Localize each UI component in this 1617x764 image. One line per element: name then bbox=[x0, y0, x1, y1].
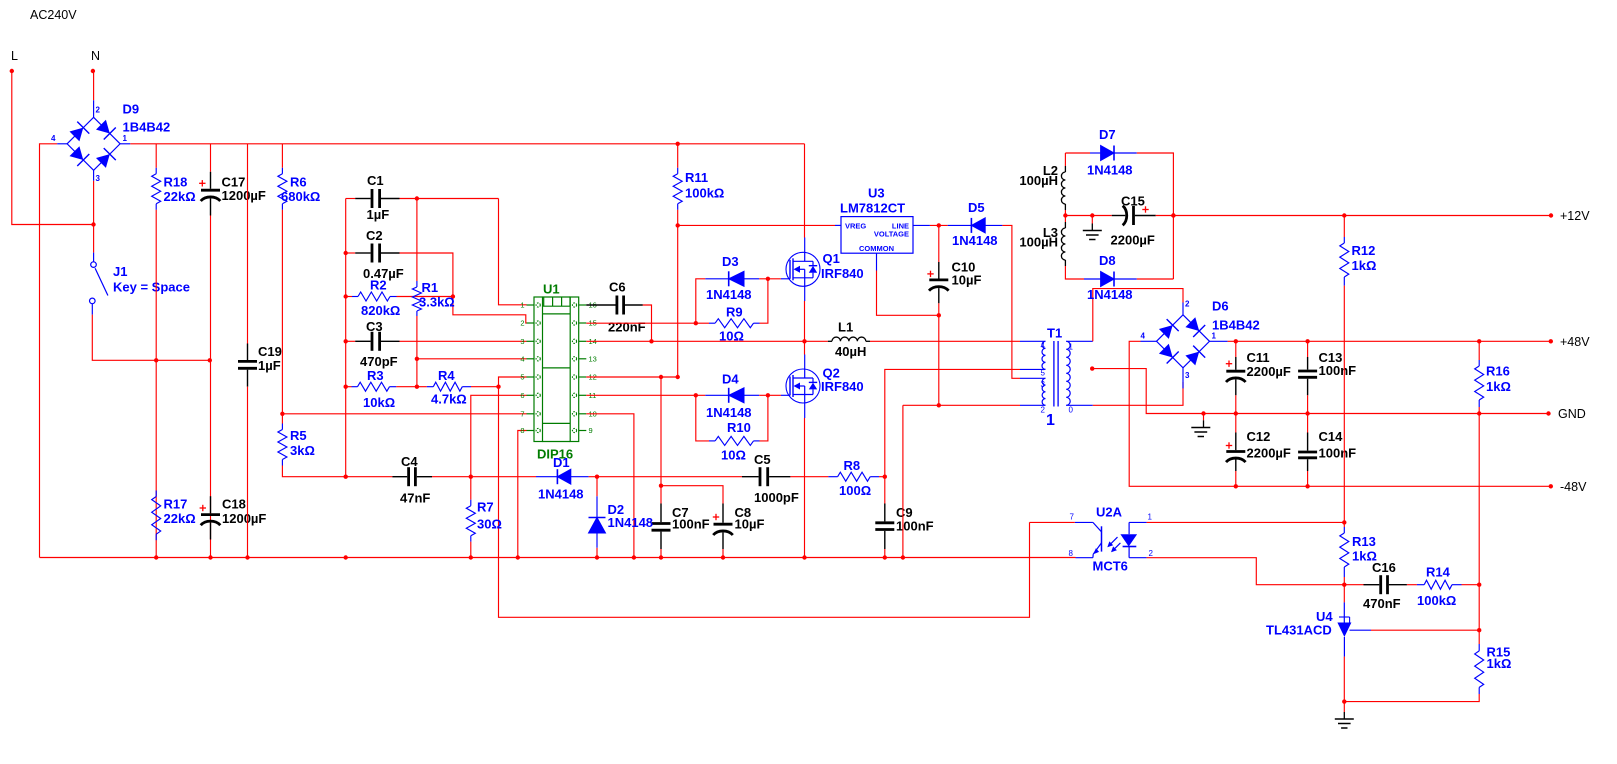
wire pin14 row to L1 bbox=[586, 340, 828, 342]
junction R1 column at R3/R4 row bbox=[415, 385, 419, 389]
svg-text:4.7kΩ: 4.7kΩ bbox=[431, 392, 467, 407]
svg-text:47nF: 47nF bbox=[400, 491, 430, 506]
resistor R18 bbox=[152, 168, 161, 210]
svg-text:1: 1 bbox=[1046, 412, 1055, 429]
junction R18 bottom at mid row bbox=[154, 358, 158, 362]
wire C8 bottom to rail bbox=[722, 549, 724, 558]
wire pin11 row bbox=[586, 394, 705, 396]
wire top rail from bridge pin1 to Q1 drain column bbox=[130, 143, 804, 145]
svg-text:10µF: 10µF bbox=[735, 517, 765, 532]
wire rail to R11 bbox=[677, 144, 679, 168]
wire pin15 row bbox=[586, 322, 696, 324]
junction R4 right node bbox=[496, 385, 500, 389]
svg-text:1kΩ: 1kΩ bbox=[1487, 656, 1512, 671]
wire C14 bottom to -48V row bbox=[1307, 471, 1309, 486]
resistor R2 bbox=[352, 292, 397, 301]
svg-text:D9: D9 bbox=[123, 102, 140, 117]
transistor Q2 bbox=[786, 369, 820, 404]
svg-text:2200µF: 2200µF bbox=[1111, 233, 1155, 248]
junction GND at R16 bbox=[1477, 411, 1481, 415]
resistor R3 bbox=[352, 382, 397, 391]
junction +48V at C13 bbox=[1305, 339, 1309, 343]
junction bottom rail at D2 column bbox=[595, 555, 599, 559]
wire GND row bbox=[1204, 413, 1549, 415]
svg-text:470nF: 470nF bbox=[1363, 596, 1401, 611]
wire pin1 column down bbox=[499, 199, 527, 305]
svg-text:680kΩ: 680kΩ bbox=[281, 189, 320, 204]
wire T1 pin2 row bbox=[903, 404, 1020, 406]
wire U2A pin8 row (bottom rail extension) bbox=[1075, 557, 1077, 559]
svg-text:R4: R4 bbox=[438, 368, 455, 383]
svg-text:TL431ACD: TL431ACD bbox=[1266, 623, 1332, 638]
wire C19 bottom to rail bbox=[247, 387, 249, 558]
svg-text:C11: C11 bbox=[1247, 350, 1270, 365]
junction L-line to bridge3 wire bbox=[91, 222, 95, 226]
svg-text:1N4148: 1N4148 bbox=[1087, 287, 1133, 302]
junction bottom rail at T1 pin2 column bbox=[901, 555, 905, 559]
svg-text:R7: R7 bbox=[477, 500, 494, 515]
junction left column at R3 row bbox=[344, 385, 348, 389]
wire D5 right to T1 pin3 column bbox=[1002, 225, 1020, 378]
L3 bottom lead bbox=[1064, 260, 1066, 266]
wire C9 column bbox=[884, 477, 886, 504]
diode D8 bbox=[1084, 272, 1137, 287]
wire C12 top red bbox=[1235, 414, 1237, 433]
L2 top lead bbox=[1064, 166, 1066, 172]
svg-text:100Ω: 100Ω bbox=[839, 483, 871, 498]
junction +48V at R16 bbox=[1477, 339, 1481, 343]
svg-text:10µF: 10µF bbox=[952, 273, 982, 288]
bridge rectifier D9 bbox=[51, 106, 127, 183]
svg-text:R13: R13 bbox=[1352, 534, 1376, 549]
wire R6 bottom to R5 top bbox=[281, 210, 283, 424]
wire R16 column down to C16 row bbox=[1478, 414, 1480, 585]
wire D3 left column bbox=[696, 279, 706, 323]
resistor R15 bbox=[1475, 644, 1484, 694]
wire R4 left red bbox=[417, 386, 427, 388]
terminal +48V bbox=[1549, 339, 1553, 343]
svg-text:4: 4 bbox=[1041, 342, 1046, 351]
op-amp U1 DIP16 body bbox=[520, 297, 597, 442]
wire R10 left column bbox=[696, 395, 709, 441]
node T1 center tap bbox=[1090, 366, 1094, 370]
svg-text:D3: D3 bbox=[722, 254, 739, 269]
svg-text:1000pF: 1000pF bbox=[754, 490, 799, 505]
wire D7 left column bbox=[1064, 153, 1066, 166]
capacitor C13 bbox=[1298, 357, 1317, 395]
junction D4 right node bbox=[766, 393, 770, 397]
svg-text:100kΩ: 100kΩ bbox=[685, 186, 724, 201]
T1 secondary top lead bbox=[1066, 340, 1093, 342]
wire T1 pin2 column to rail bbox=[902, 405, 904, 557]
svg-text:1: 1 bbox=[1069, 343, 1074, 352]
wire D1 node to C5 bbox=[597, 476, 742, 478]
wire R9 left red bbox=[696, 322, 709, 324]
svg-text:3: 3 bbox=[1041, 380, 1046, 389]
wire U2A pin1 to R13 bbox=[1147, 521, 1345, 523]
bridge D9 pin4 lead bbox=[57, 143, 67, 145]
svg-text:1N4148: 1N4148 bbox=[608, 515, 654, 530]
wire +12V row bbox=[1156, 215, 1551, 217]
svg-text:C3: C3 bbox=[366, 319, 383, 334]
U3 output lead bbox=[913, 224, 930, 226]
wire C2 left bbox=[346, 252, 356, 254]
capacitor C1 bbox=[355, 189, 399, 208]
wire C13 top red bbox=[1307, 341, 1309, 357]
wire U2A pin7 left-down bbox=[1030, 521, 1075, 523]
wire pin8 down to rail bbox=[518, 431, 527, 558]
wire C3 right to pin3 bbox=[400, 340, 527, 342]
voltage regulator U3 box bbox=[841, 217, 913, 254]
svg-text:R3: R3 bbox=[367, 368, 384, 383]
svg-text:D6: D6 bbox=[1212, 299, 1229, 314]
svg-text:U2A: U2A bbox=[1096, 505, 1123, 520]
wire R5 bottom to left column bbox=[282, 466, 345, 477]
wire D7 row right bbox=[1137, 153, 1174, 279]
junction C15 left / ground bbox=[1090, 213, 1094, 217]
wire D4 right red bbox=[759, 394, 781, 396]
terminal L bbox=[10, 69, 14, 73]
svg-text:C1: C1 bbox=[367, 173, 384, 188]
wire U3 input row bbox=[678, 224, 835, 226]
wire pin7 row bbox=[282, 413, 526, 415]
junction Q1-Q2 node at pin14 row bbox=[802, 339, 806, 343]
junction at T1 pin2 row bbox=[937, 403, 941, 407]
wire +48V row bbox=[1228, 340, 1551, 342]
capacitor C15 bbox=[1112, 206, 1156, 226]
Q2 drain lead bbox=[804, 355, 806, 370]
U3 common lead bbox=[876, 253, 878, 270]
junction R11 column at pin12 row bbox=[676, 375, 680, 379]
svg-text:T1: T1 bbox=[1047, 326, 1062, 341]
svg-text:C15: C15 bbox=[1121, 194, 1145, 209]
svg-text:4: 4 bbox=[51, 134, 56, 143]
svg-text:1: 1 bbox=[1148, 513, 1153, 522]
junction R5-R6 with pin7 row bbox=[280, 412, 284, 416]
junction left column at C3 row bbox=[344, 339, 348, 343]
ground near C15 bbox=[1083, 224, 1102, 240]
wire D1 right red bbox=[589, 476, 597, 478]
wire TL431 cathode red bbox=[1343, 601, 1345, 603]
capacitor C7 bbox=[652, 504, 671, 550]
capacitor C18 bbox=[200, 496, 221, 539]
capacitor C9 bbox=[875, 504, 894, 550]
wire Q2 drain to node bbox=[804, 341, 806, 354]
junction D3 right node bbox=[766, 277, 770, 281]
svg-text:470pF: 470pF bbox=[360, 354, 398, 369]
junction left column at R2 row bbox=[344, 294, 348, 298]
bridge D6 pin1 lead bbox=[1210, 340, 1228, 342]
wire R2 node jog to pin2 bbox=[453, 297, 527, 324]
switch J1 bbox=[90, 253, 108, 315]
terminal +12V bbox=[1549, 213, 1553, 217]
svg-text:100nF: 100nF bbox=[1319, 363, 1357, 378]
svg-text:J1: J1 bbox=[113, 264, 127, 279]
wire R9 right up to D3 row bbox=[760, 279, 768, 323]
bridge D9 pin3 lead bbox=[93, 170, 95, 180]
svg-text:1B4B42: 1B4B42 bbox=[1212, 318, 1260, 333]
svg-text:GND: GND bbox=[1558, 407, 1586, 421]
wire D2 bottom red bbox=[596, 548, 598, 558]
wire C11 bottom to GND row bbox=[1235, 395, 1237, 413]
wire rail to R18 bbox=[155, 144, 157, 168]
wire C2 right down to R2 node bbox=[400, 253, 453, 297]
wire bottom rail bbox=[40, 557, 1076, 559]
wire C4 left red bbox=[346, 476, 393, 478]
svg-text:R16: R16 bbox=[1486, 364, 1510, 379]
svg-text:C16: C16 bbox=[1372, 560, 1396, 575]
junction pin15/R9 left node bbox=[694, 321, 698, 325]
svg-text:1N4148: 1N4148 bbox=[1087, 163, 1133, 178]
diode D1 bbox=[536, 469, 589, 484]
junction U2A pin1 row at R13 bbox=[1342, 520, 1346, 524]
resistor R12 bbox=[1340, 237, 1349, 286]
wire ground stub at GND row bbox=[1203, 414, 1205, 421]
junction bottom rail at C19 column bbox=[245, 555, 249, 559]
wire C16 to R14 red bbox=[1407, 584, 1417, 586]
wire R11 bottom to pin12 row bbox=[677, 210, 679, 377]
wire C3 left bbox=[346, 340, 356, 342]
wire bridge pin3 to J1 bbox=[93, 181, 95, 253]
diode D7 bbox=[1090, 146, 1137, 161]
svg-text:100µH: 100µH bbox=[1019, 235, 1058, 250]
svg-text:2: 2 bbox=[520, 319, 524, 328]
svg-text:VREG: VREG bbox=[845, 222, 866, 231]
svg-text:C4: C4 bbox=[401, 454, 418, 469]
wire pin10 to rail bbox=[586, 414, 634, 558]
svg-text:R17: R17 bbox=[164, 497, 188, 512]
wire C4 right red bbox=[432, 476, 471, 478]
svg-text:R5: R5 bbox=[290, 428, 307, 443]
svg-text:MCT6: MCT6 bbox=[1093, 559, 1128, 574]
wire R2 right red bbox=[397, 296, 453, 298]
U2A transistor base bar bbox=[1101, 526, 1103, 551]
capacitor C6 bbox=[586, 296, 643, 315]
svg-text:40µH: 40µH bbox=[835, 344, 866, 359]
capacitor C8 bbox=[713, 504, 733, 550]
bridge D6 pin3 lead bbox=[1182, 368, 1184, 389]
svg-text:C19: C19 bbox=[258, 344, 282, 359]
svg-text:U1: U1 bbox=[543, 282, 560, 297]
wire D3 right red bbox=[759, 278, 781, 280]
capacitor C3 bbox=[355, 332, 399, 351]
capacitor C16 bbox=[1364, 575, 1407, 594]
capacitor C4 bbox=[392, 467, 432, 486]
U2A transistor emitter bbox=[1093, 543, 1101, 554]
wire Q2 source to rail bbox=[804, 418, 806, 558]
resistor R1 bbox=[412, 281, 421, 316]
wire C13 bottom to GND row bbox=[1307, 395, 1309, 413]
svg-text:22kΩ: 22kΩ bbox=[164, 511, 196, 526]
wire C7 column down bbox=[660, 377, 662, 504]
svg-text:R18: R18 bbox=[164, 175, 188, 190]
junction bottom rail at C8 column bbox=[721, 555, 725, 559]
U2A pin7 lead bbox=[1075, 521, 1093, 523]
svg-text:R2: R2 bbox=[370, 278, 387, 293]
junction bottom rail at left column bbox=[344, 555, 348, 559]
capacitor C12 bbox=[1226, 433, 1246, 472]
resistor R4 bbox=[427, 382, 471, 391]
svg-text:VOLTAGE: VOLTAGE bbox=[874, 230, 909, 239]
svg-text:+12V: +12V bbox=[1560, 209, 1590, 223]
wire R3 left red bbox=[346, 386, 352, 388]
junction R1 column at pin4 row bbox=[415, 357, 419, 361]
junction TL431 ref row at R15 column bbox=[1477, 628, 1481, 632]
svg-text:C6: C6 bbox=[609, 280, 626, 295]
wire rail to C19 bbox=[247, 144, 249, 344]
svg-text:3kΩ: 3kΩ bbox=[290, 443, 315, 458]
svg-text:10Ω: 10Ω bbox=[721, 448, 746, 463]
wire R12 top red bbox=[1343, 216, 1345, 238]
svg-text:C14: C14 bbox=[1319, 429, 1344, 444]
wire R12 bottom long bbox=[1343, 286, 1345, 527]
wire C7-C8 top link bbox=[661, 486, 723, 504]
junction bottom rail at pin8 column bbox=[516, 555, 520, 559]
junction pin12 row at C7 column bbox=[659, 375, 663, 379]
junction C16 row at R13 bbox=[1342, 583, 1346, 587]
T1 winding B top lead bbox=[1020, 377, 1046, 379]
svg-text:1: 1 bbox=[520, 301, 524, 310]
svg-text:R12: R12 bbox=[1352, 243, 1376, 258]
wire L1 to T1 pin4 bbox=[870, 340, 1020, 342]
svg-text:C12: C12 bbox=[1247, 429, 1271, 444]
wire N down to bridge pin2 bbox=[92, 71, 95, 100]
U2A transistor collector bbox=[1093, 522, 1102, 532]
junction +48V at C11 bbox=[1234, 339, 1238, 343]
wire D2 top red bbox=[596, 477, 598, 497]
svg-text:2: 2 bbox=[1149, 549, 1154, 558]
diode D5 bbox=[948, 218, 1003, 233]
terminal -48V bbox=[1549, 484, 1553, 488]
svg-text:R9: R9 bbox=[726, 305, 743, 320]
wire C16 left red bbox=[1344, 584, 1363, 586]
svg-text:22kΩ: 22kΩ bbox=[164, 189, 196, 204]
wire C11 top red bbox=[1235, 341, 1237, 357]
junction U3 out / C10 / D5 bbox=[937, 223, 941, 227]
svg-text:C2: C2 bbox=[366, 228, 383, 243]
junction C17 bottom at mid row bbox=[208, 358, 212, 362]
L1 left lead bbox=[828, 340, 832, 342]
svg-text:1B4B42: 1B4B42 bbox=[123, 120, 171, 135]
wire R13 bottom red bbox=[1343, 577, 1345, 602]
Q1 source lead bbox=[804, 286, 806, 301]
junction R8/C9/T1pin5 node bbox=[883, 475, 887, 479]
junction bottom rail at C7 column bbox=[659, 555, 663, 559]
junction D1/D2/C5 node bbox=[595, 475, 599, 479]
wire +12V row left part bbox=[1065, 215, 1111, 217]
junction D7-D8 column at +12V row bbox=[1171, 213, 1175, 217]
T1 secondary bottom lead bbox=[1066, 404, 1093, 406]
wire T1 secondary bottom to D6 pin3 bbox=[1093, 382, 1183, 405]
L1 right lead bbox=[866, 340, 870, 342]
capacitor C5 bbox=[742, 467, 790, 486]
svg-text:IRF840: IRF840 bbox=[821, 379, 864, 394]
junction bottom rail at C17/C18 column bbox=[208, 555, 212, 559]
svg-text:2: 2 bbox=[1041, 406, 1046, 415]
bridge D6 pin4 lead bbox=[1141, 340, 1157, 342]
inductor L2 bbox=[1061, 172, 1065, 204]
U2A LED bbox=[1129, 521, 1147, 523]
wire R8 right red bbox=[879, 476, 885, 478]
svg-text:1N4148: 1N4148 bbox=[538, 487, 584, 502]
T1 winding B bottom lead bbox=[1020, 404, 1046, 406]
resistor R11 bbox=[673, 168, 682, 210]
svg-text:7: 7 bbox=[520, 409, 524, 418]
svg-text:10Ω: 10Ω bbox=[719, 329, 744, 344]
svg-text:1kΩ: 1kΩ bbox=[1486, 379, 1511, 394]
transformer T1 primary winding A bbox=[1042, 341, 1046, 369]
svg-text:R10: R10 bbox=[727, 420, 751, 435]
svg-text:3: 3 bbox=[520, 337, 524, 346]
svg-text:13: 13 bbox=[589, 354, 597, 363]
wire Q1 drain column bbox=[804, 144, 806, 238]
junction -48V at C12 bbox=[1234, 484, 1238, 488]
svg-text:6: 6 bbox=[520, 391, 524, 400]
resistor R16 bbox=[1475, 360, 1484, 407]
svg-text:1200µF: 1200µF bbox=[222, 511, 266, 526]
wire D1 left red bbox=[471, 476, 536, 478]
svg-text:820kΩ: 820kΩ bbox=[361, 303, 400, 318]
ground at TL431 bbox=[1335, 712, 1354, 728]
junction pin11/D4 left node bbox=[694, 393, 698, 397]
wire TL431 ref to R15 column bbox=[1371, 629, 1479, 631]
resistor R6 bbox=[278, 168, 287, 210]
wire L down-right to bridge bottom net bbox=[12, 71, 94, 225]
Q1 drain lead bbox=[804, 238, 806, 253]
wire R15 column upper bbox=[1478, 585, 1480, 644]
junction L2-L3 at +12V row bbox=[1063, 213, 1067, 217]
capacitor C11 bbox=[1226, 357, 1246, 395]
resistor R17 bbox=[152, 491, 161, 541]
junction +12V row at D7-D8 column bbox=[1171, 213, 1175, 217]
wire R1 top red bbox=[416, 199, 418, 282]
wire Q1 source to node bbox=[804, 301, 806, 341]
svg-text:1N4148: 1N4148 bbox=[706, 287, 752, 302]
svg-text:5: 5 bbox=[520, 373, 524, 382]
resistor R10 bbox=[709, 436, 760, 445]
wire U3 out to D5 bbox=[930, 224, 948, 226]
diode D4 bbox=[705, 388, 759, 403]
inductor L1 bbox=[832, 337, 866, 341]
svg-text:0: 0 bbox=[1069, 406, 1074, 415]
transformer T1 primary winding B bbox=[1042, 378, 1045, 405]
svg-text:1µF: 1µF bbox=[258, 358, 281, 373]
wire R7 bottom red bbox=[470, 542, 472, 558]
svg-text:100µH: 100µH bbox=[1019, 173, 1058, 188]
junction left column at C4 row bbox=[344, 475, 348, 479]
junction bottom rail at pin10 column bbox=[632, 555, 636, 559]
bridge rectifier D6 bbox=[1141, 300, 1217, 381]
wire TL431 anode down bbox=[1343, 657, 1345, 702]
transformer T1 core bbox=[1053, 341, 1055, 407]
T1 winding A bottom lead bbox=[1020, 368, 1046, 370]
terminal GND bbox=[1546, 411, 1550, 415]
bridge D9 pin1 lead bbox=[120, 143, 130, 145]
svg-text:1200µF: 1200µF bbox=[222, 188, 266, 203]
junction C4/R7/D1 node bbox=[469, 475, 473, 479]
svg-text:2200µF: 2200µF bbox=[1247, 364, 1291, 379]
resistor R13 bbox=[1340, 527, 1349, 577]
diode D3 bbox=[705, 271, 759, 286]
wire C12 bottom to -48V row bbox=[1235, 471, 1237, 486]
shunt regulator U4 TL431 bbox=[1337, 602, 1371, 656]
svg-text:1kΩ: 1kΩ bbox=[1352, 258, 1377, 273]
svg-text:D8: D8 bbox=[1099, 253, 1116, 268]
U2A light arrow 2 bbox=[1112, 543, 1120, 551]
L2 bottom lead bbox=[1064, 204, 1066, 210]
junction R11 column at U3 row bbox=[676, 223, 680, 227]
svg-text:4: 4 bbox=[520, 354, 524, 363]
